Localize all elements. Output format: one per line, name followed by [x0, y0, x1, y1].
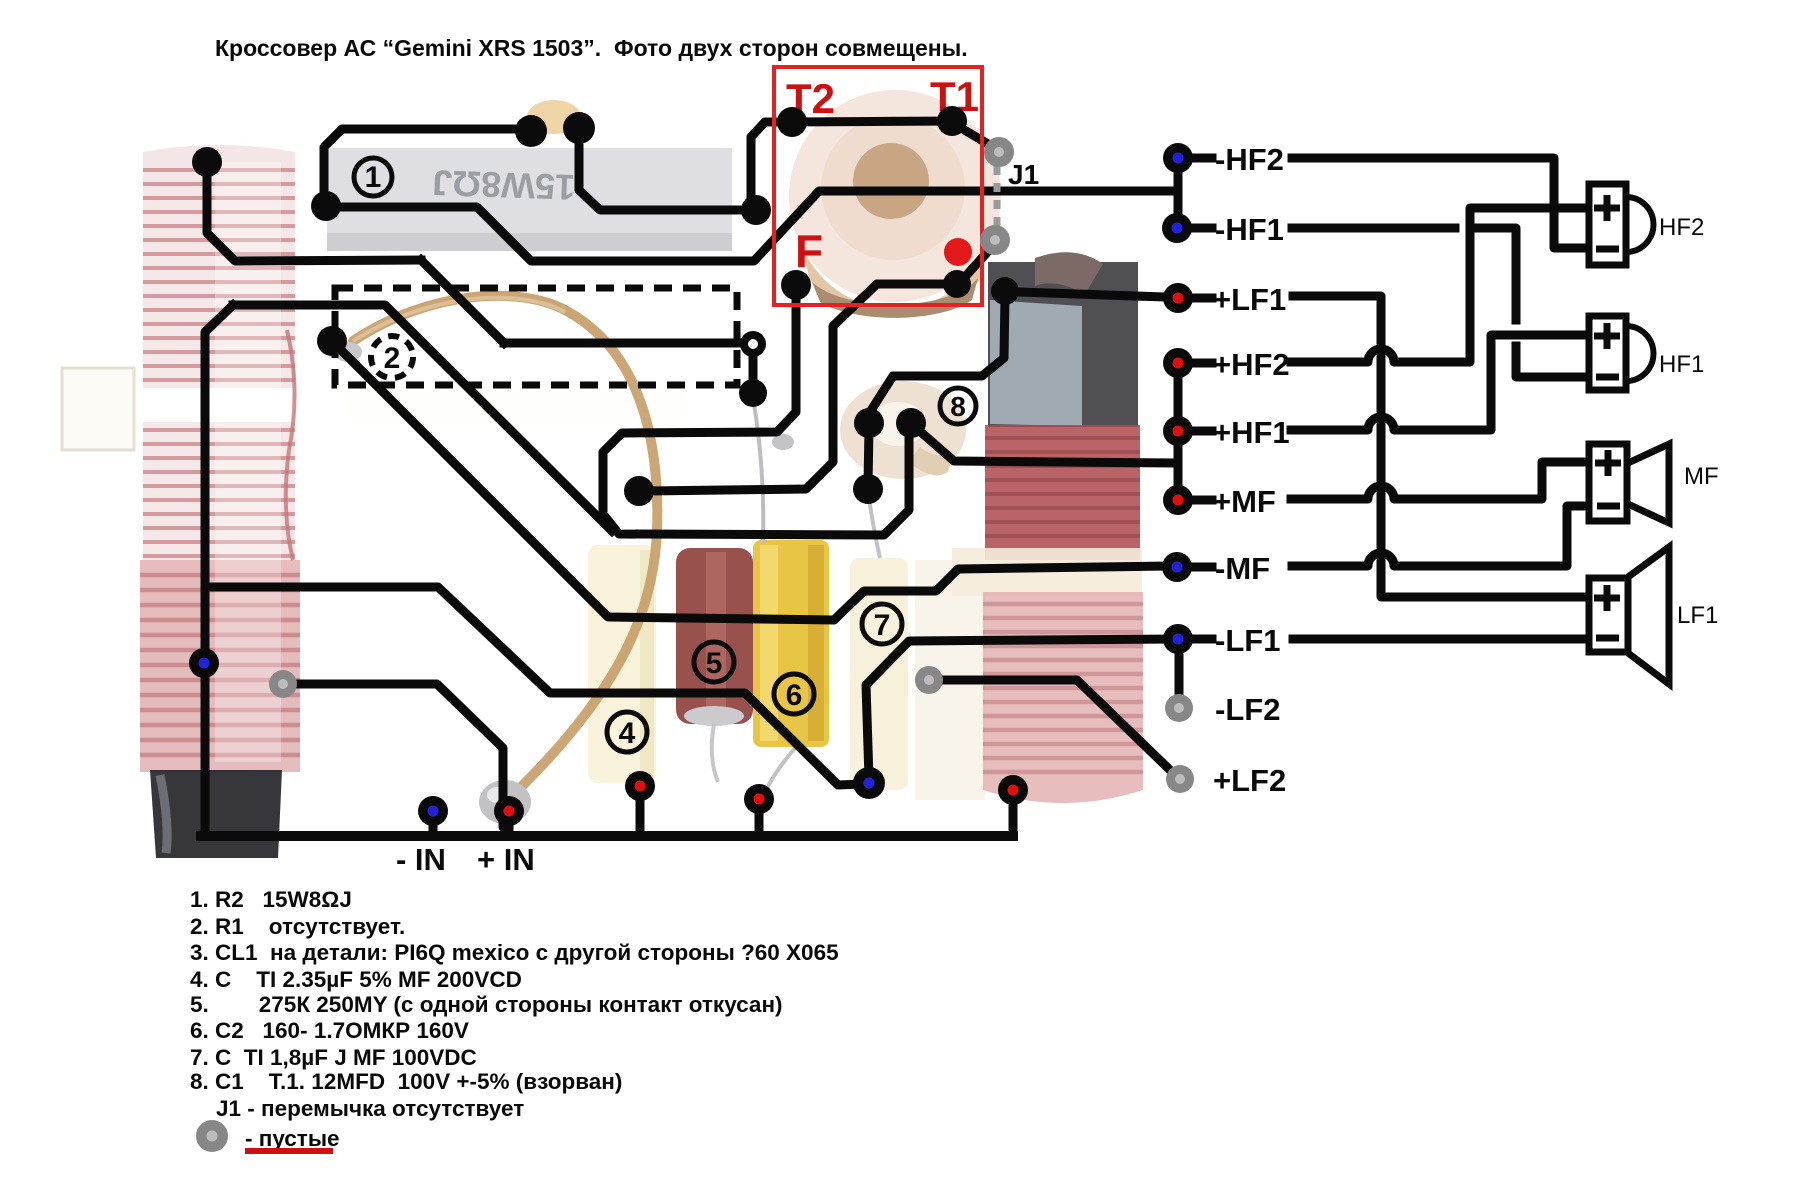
wire pad down to toroid C1 pad — [870, 296, 1005, 412]
svg-text:LF1: LF1 — [1677, 602, 1718, 629]
circled number 8 — [940, 388, 976, 424]
wire top cap pad down to node A — [579, 132, 750, 210]
inductor L-left coil lower stripes — [140, 575, 300, 755]
J1 bottom empty pad — [980, 225, 1010, 255]
svg-text:-LF1: -LF1 — [1215, 623, 1280, 658]
wire toroid C1 pad to +HF rail — [915, 427, 1174, 463]
svg-text:7. C TI 1,8µF J MF 100VDC: 7. C TI 1,8µF J MF 100VDC — [190, 1045, 477, 1070]
wire +HF2 row to HF2 plus — [1291, 208, 1585, 362]
thin red lead wire on left coil — [286, 330, 295, 560]
red marker dot — [944, 238, 972, 266]
wire -LF1 row to LF1 minus — [1293, 635, 1585, 644]
svg-text:Кроссовер АС “Gemini XRS 1503”: Кроссовер АС “Gemini XRS 1503”. Фото дву… — [215, 35, 968, 61]
component lead below C2 — [763, 748, 795, 798]
solder blob near R1 pad — [334, 342, 362, 362]
SPEAKERS — [1589, 184, 1669, 684]
wire -HF1 row to HF1 minus — [1292, 228, 1585, 377]
wire +LF1 row long rail to LF1 plus — [1293, 296, 1585, 597]
svg-text:1. R2 15W8ΩJ: 1. R2 15W8ΩJ — [190, 887, 352, 912]
wire T1 diagonal to J1 top pad — [956, 125, 993, 147]
pad toroid C1 right — [896, 408, 926, 438]
svg-text:J1 - перемычка отсутствует: J1 - перемычка отсутствует — [216, 1096, 524, 1121]
svg-text:7: 7 — [874, 609, 891, 642]
legend empty pad sample — [196, 1120, 228, 1152]
legend red underline — [245, 1148, 333, 1154]
capacitor C5 maroon body photo — [676, 548, 753, 726]
svg-text:5: 5 — [706, 647, 723, 680]
terminal stub -LF1 — [1190, 635, 1212, 644]
terminal -LF1 — [1163, 624, 1193, 654]
terminal -HF2 — [1163, 143, 1193, 173]
svg-text:- IN: - IN — [396, 842, 446, 877]
wire +LF1 feed — [1018, 292, 1164, 297]
svg-text:-HF2: -HF2 — [1215, 142, 1284, 177]
speaker MF horn — [1589, 444, 1669, 523]
svg-text:MF: MF — [1684, 463, 1719, 490]
pad node A — [741, 195, 771, 225]
terminal -LF2 empty pad — [1165, 694, 1193, 722]
svg-text:3. CL1 на детали: PI6Q mexico: 3. CL1 на детали: PI6Q mexico с другой с… — [190, 940, 839, 965]
toroid inductor CL1 photo — [789, 90, 1001, 318]
wire left vertical rail to bottom bus — [205, 305, 233, 832]
inductor L-left coil photo body — [140, 145, 300, 772]
capacitor C4 cream body photo — [588, 545, 656, 783]
wire blue pad up to -LF1 run — [866, 639, 1172, 778]
wire -HF2/-HF1 rail — [1174, 158, 1183, 228]
svg-text:J1: J1 — [1008, 159, 1039, 190]
terminal stub +HF2 — [1190, 359, 1212, 368]
LEGEND — [190, 887, 839, 1151]
svg-text:- пустые: - пустые — [245, 1126, 340, 1151]
speaker HF2 tweeter — [1589, 184, 1654, 265]
svg-text:+HF2: +HF2 — [1213, 347, 1290, 382]
capacitor C7 small cream body photo — [850, 558, 908, 790]
svg-text:8. C1 T.1. 12MFD 100V +-5%: 8. C1 T.1. 12MFD 100V +-5% (взорван) — [190, 1069, 622, 1094]
pad hollow lower — [739, 379, 767, 407]
pad C2 bottom — [744, 784, 774, 814]
wire node K horizontal to hollow pad — [504, 343, 753, 390]
bottom bus wire — [201, 831, 1013, 841]
inductor L-left coil winding stripes — [143, 170, 295, 556]
empty pad left board — [269, 670, 297, 698]
dashed outline box R1 position — [335, 288, 737, 385]
pad top cap left — [515, 115, 547, 147]
wire R1 pad diagonal to -MF run — [340, 349, 1172, 620]
tan hookup wire photo lead — [353, 296, 657, 792]
circled number 6 — [774, 674, 814, 714]
resistor R2 white ceramic body photo — [327, 148, 732, 251]
svg-text:5. 275К 250MY (с одной: 5. 275К 250MY (с одной стороны контакт о… — [190, 992, 783, 1017]
speaker LF1 woofer — [1589, 547, 1669, 684]
terminal stub -HF1 — [1190, 224, 1212, 233]
circled number 2 dashed — [371, 336, 413, 378]
svg-text:15W8ΩJ: 15W8ΩJ — [432, 162, 576, 208]
sheen highlight on right coil — [1018, 430, 1076, 785]
wire empty pad to +LF2 — [944, 680, 1170, 770]
wire T2 to T1 — [792, 121, 952, 122]
red highlight box around T1 T2 — [774, 67, 982, 305]
wire resistor top-left loop — [324, 129, 527, 200]
circled number 4 — [607, 712, 647, 752]
component lead below C5 — [712, 724, 718, 782]
svg-text:+MF: +MF — [1213, 484, 1276, 519]
white spacer band on right coil — [952, 548, 1142, 596]
svg-text:2. R1 отсутствует.: 2. R1 отсутствует. — [190, 914, 405, 939]
wire resistor pad to long bottom run — [330, 191, 1174, 261]
pad +IN — [494, 796, 524, 826]
terminal +LF2 empty pad — [1166, 765, 1194, 793]
svg-text:F: F — [795, 225, 823, 277]
wire -IN stub — [429, 824, 438, 834]
tan capacitor top oval behind top dots — [527, 100, 581, 134]
hollow pad right of dashed box — [740, 331, 766, 357]
svg-text:1: 1 — [365, 161, 382, 194]
cream bobbin strip left of right coil — [915, 560, 985, 800]
wire node J diagonal to node K — [421, 260, 504, 343]
terminal stub +LF1 — [1190, 294, 1212, 303]
cable tie on left coil — [62, 368, 685, 450]
pad blue left rail — [189, 648, 219, 678]
wire empty pad to +IN join — [298, 684, 510, 834]
svg-text:8: 8 — [950, 391, 966, 422]
inductor L-right coil dark top — [988, 252, 1138, 427]
svg-text:-MF: -MF — [1215, 551, 1270, 586]
pad -IN — [418, 796, 448, 826]
wire right pad stub — [1009, 803, 1018, 836]
solder blob at +IN pad — [479, 780, 531, 824]
circled number 7 — [862, 604, 902, 644]
wire +HF2/+HF1/+MF rail — [1174, 363, 1183, 500]
wire +HF1 row to HF1 plus — [1291, 335, 1585, 430]
PHOTO LAYER — [62, 90, 1143, 858]
J1 jumper dashed link — [994, 166, 1001, 227]
terminal stub -MF — [1190, 563, 1212, 572]
pad toroid C1 bottom — [853, 474, 883, 504]
component lead from hollow pad to C5 — [753, 398, 763, 543]
pad right of F — [991, 277, 1019, 305]
empty pad center board — [915, 666, 943, 694]
pad toroid C1 left — [854, 408, 884, 438]
wire pad F left run down to C4 top pad — [652, 284, 951, 491]
circled number 1 — [354, 158, 392, 196]
terminal -HF1 — [1162, 213, 1192, 243]
toroid capacitor C1 small photo — [840, 381, 966, 479]
pad near C4 top — [624, 476, 654, 506]
wire C4 pad stub — [636, 799, 645, 834]
svg-text:+LF1: +LF1 — [1213, 282, 1286, 317]
circled number 5 — [694, 642, 734, 682]
sheen highlight on left coil — [215, 162, 281, 762]
inductor L-right coil lower pink stripes — [983, 592, 1143, 803]
wire toroid C1 pads link — [868, 427, 869, 485]
speaker HF1 tweeter — [1589, 316, 1654, 390]
svg-text:6. C2 160- 1.7ОМКР 160V: 6. C2 160- 1.7ОМКР 160V — [190, 1018, 469, 1043]
svg-text:+LF2: +LF2 — [1213, 763, 1286, 798]
wire +IN stub — [505, 824, 514, 834]
terminal +HF2 — [1163, 348, 1193, 378]
terminal +LF1 — [1163, 283, 1193, 313]
wire -HF2 row to HF2 minus — [1292, 158, 1585, 248]
svg-text:6: 6 — [786, 679, 803, 712]
svg-text:4: 4 — [619, 717, 636, 750]
wire from coil pad to node J (left feed) — [207, 166, 421, 261]
pad F corner — [943, 270, 971, 298]
terminal +MF — [1163, 485, 1193, 515]
terminal stub +MF — [1190, 496, 1212, 505]
svg-text:-LF2: -LF2 — [1215, 692, 1280, 727]
terminal stub -HF2 — [1190, 154, 1212, 163]
pad top cap right — [563, 112, 595, 144]
svg-text:+HF1: +HF1 — [1213, 415, 1290, 450]
pad right coil bottom — [998, 775, 1028, 805]
terminal -MF — [1162, 552, 1192, 582]
svg-text:+ IN: + IN — [477, 842, 535, 877]
J1 top empty pad — [984, 137, 1014, 167]
wire -LF1 to -LF2 link — [1175, 652, 1184, 696]
wire -MF row to MF minus — [1292, 506, 1585, 566]
capacitor C2 yellow body photo — [753, 540, 829, 747]
solder blob below hollow pad — [772, 434, 794, 450]
wire left rail to +IN diagonal run — [205, 587, 862, 785]
inductor L-right coil red mid section — [985, 425, 1140, 560]
WIRE LAYER — [201, 121, 1585, 836]
wire node A up to T2 — [751, 122, 788, 205]
wire octagon loop around R1 area — [603, 288, 909, 535]
pad coil top-left — [192, 147, 222, 177]
terminal +HF1 — [1163, 416, 1193, 446]
pad T1 — [937, 106, 967, 136]
svg-text:4. C TI 2.35µF 5% MF 200VCD: 4. C TI 2.35µF 5% MF 200VCD — [190, 967, 522, 992]
inductor L-left coil black base — [150, 770, 282, 858]
wire J1 bottom pad diagonal to pad F — [963, 247, 992, 279]
svg-text:HF1: HF1 — [1659, 351, 1704, 378]
component lead from C1 to C7 — [868, 492, 880, 558]
pad R2 lower-left dot — [781, 270, 811, 300]
pad blue center board — [853, 767, 885, 799]
svg-text:HF2: HF2 — [1659, 214, 1704, 241]
terminal stub +HF1 — [1190, 427, 1212, 436]
wire +MF row to MF plus — [1291, 462, 1585, 499]
svg-text:2: 2 — [384, 342, 401, 375]
wire C2 pad stub — [755, 812, 764, 834]
pad R1 left — [317, 326, 347, 356]
svg-text:-HF1: -HF1 — [1215, 212, 1284, 247]
pad resistor left — [311, 191, 341, 221]
pad C4 bottom — [625, 771, 655, 801]
wire rail branch long diagonal — [233, 305, 612, 531]
pad T2 — [777, 107, 807, 137]
